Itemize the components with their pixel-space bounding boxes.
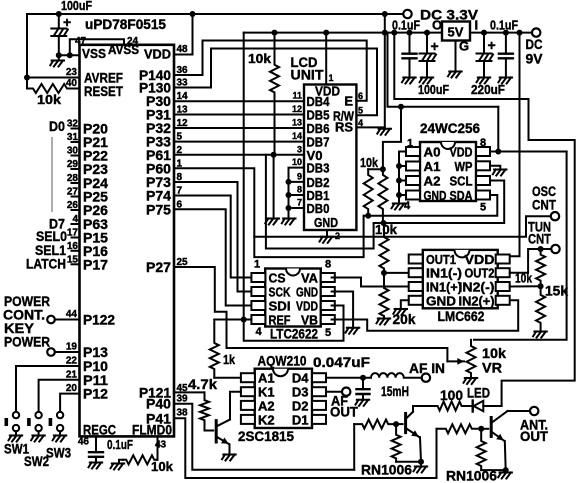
resistor 100 [437,402,463,411]
svg-text:D1: D1 [292,412,309,427]
ground V0 node [265,219,279,225]
svg-text:+: + [488,37,496,53]
wire SW2 to ground [38,431,40,435]
wire VB to IN2+ [332,300,519,330]
resistor 4.7k [200,399,209,421]
svg-text:P17: P17 [83,256,108,272]
wire P140 to LCD E [174,41,367,101]
svg-text:10k: 10k [375,222,398,237]
wire 100uF top lead [58,14,60,29]
ground 220uF [477,78,491,84]
svg-text:SCK: SCK [269,285,291,300]
pin box A2 (AQW) [241,401,255,410]
svg-text:13: 13 [292,118,302,128]
svg-text:220uF: 220uF [471,82,505,97]
wire 100uF bottom lead [58,36,60,55]
wire 3.3V to VR top [474,152,567,340]
wire LTC GND [332,292,354,328]
pin stub uPD pin 26 [72,209,80,211]
wire VA to IN1+ [332,278,409,287]
pin box VDD (LMC) [496,255,510,264]
wire uPD to SW1 [16,366,80,412]
svg-text:100: 100 [440,387,463,403]
wire 0.1uF b top lead [505,33,507,54]
capacitor 0.1uF (REGC) [89,452,103,457]
svg-text:RESET: RESET [84,83,123,99]
resistor 10k (RESET) [27,84,73,93]
svg-text:AVSS: AVSS [108,42,139,57]
junction rail2/9V drop [517,30,523,36]
wire uPD VDD [174,14,193,55]
wire 0.1uF a bottom lead [409,58,411,77]
wire REF to LTC VDD (under chip) [244,306,344,341]
wire REGC stub [95,436,97,452]
switch SW2 [35,412,41,418]
resistor 10k (SCL pullup) [378,169,387,223]
svg-text:A2: A2 [424,174,441,189]
resistor 10k (divider top) [380,223,389,273]
ground at VSS node [50,61,64,67]
wire P32-DB6 [174,127,304,129]
wire P13 [55,351,80,353]
wire P122 [55,319,80,321]
pin box GND (LMC) [409,296,423,305]
svg-text:IN1(-): IN1(-) [426,266,462,281]
display LCD UNIT body [304,85,356,231]
junction IN2- node [538,283,544,289]
svg-text:1: 1 [254,259,260,271]
svg-text:A2: A2 [258,398,275,413]
svg-text:30: 30 [67,146,79,157]
wire 24WC VDD drop [497,107,499,152]
svg-text:11: 11 [292,91,302,101]
svg-text:uPD78F0515: uPD78F0515 [85,17,166,32]
svg-text:WP: WP [455,159,473,174]
wire V0 node to LCD V0 [274,154,304,156]
wire DB0 tie [289,207,305,209]
wire D3 to AF OUT [326,391,342,393]
resistor 10k (TUN) [536,249,545,286]
ground RN2 [498,473,512,479]
junction rail2/0.1uF a [407,30,413,36]
svg-text:0.1uF: 0.1uF [107,437,133,452]
resistor 20k (divider bottom) [380,273,389,319]
wire REF pin [214,319,251,321]
svg-text:GND: GND [426,293,456,308]
terminal P13 (power key) [47,348,55,356]
photoMOS U5 AQW210 body [255,369,312,428]
svg-text:VDD: VDD [144,47,171,62]
wire AVSS bracket [70,39,124,55]
pin stub uPD pin 32 [72,128,80,130]
wire RN2 input riser [436,429,438,478]
pin box SDI (LTC) [251,301,265,310]
op-amp U4 LMC662 body [423,250,498,308]
svg-text:DC 3.3V: DC 3.3V [420,7,479,23]
svg-text:44: 44 [66,309,78,320]
svg-text:8: 8 [325,259,331,271]
pin box IN1(+) (LMC) [409,282,423,291]
wire RN1 internal to emitter [396,461,421,463]
ground 100uF b [420,78,434,84]
capacitor 0.1uF (3.3V side) [403,54,417,59]
ground VR [464,378,478,384]
svg-text:E: E [344,94,353,109]
wire VR top [470,340,472,342]
wire LCD GND stub [326,230,328,237]
svg-text:LED: LED [467,385,490,401]
svg-text:VA: VA [301,271,319,286]
svg-text:27: 27 [67,187,79,198]
wire GND tie (24WC) [399,194,406,196]
transistor Q1 2SC1815 [215,421,218,442]
wire P31-DB5 [174,114,304,116]
wire Q1 collector to K1 [230,392,241,420]
ground 0.047uF [356,400,370,406]
svg-text:4: 4 [358,118,363,128]
svg-text:6: 6 [177,199,183,210]
wire RS net vertical [384,33,386,128]
wire 3.3V rail2 [244,32,442,34]
svg-text:D2: D2 [292,398,309,413]
wire RESET to pin [73,88,80,90]
wire P75 to SDI [174,209,251,305]
potentiometer 10k VR body [467,342,476,377]
svg-text:9V: 9V [526,51,544,67]
svg-text:6: 6 [358,91,363,101]
junction rail2/100uF [424,30,430,36]
svg-text:REF: REF [269,313,291,328]
pin box VDD (24WC256) [476,147,490,156]
pin box CS (LTC) [251,273,265,282]
terminal DC 3.3V [403,10,411,18]
terminal ANT OUT [530,407,538,415]
junction rail2/LED feed [391,30,397,36]
svg-text:GND: GND [296,285,318,300]
pin stub uPD pin 17 [72,237,80,239]
svg-text:8: 8 [177,172,183,183]
wire 5V feed to LED chain [394,33,574,406]
pin stub uPD pin 27 [72,196,80,198]
svg-text:22: 22 [66,356,78,367]
junction VSS node [56,52,62,58]
svg-text:VR: VR [482,360,502,376]
junction SDA pullup [365,213,371,219]
wire 4.7k to base [205,421,214,430]
wire DC3.3V terminal drop [384,14,386,33]
svg-text:VSS: VSS [82,46,106,61]
pin stub uPD pin 4 [72,223,80,225]
wire pullup feed [383,107,401,170]
svg-text:IN2(+): IN2(+) [459,293,495,308]
svg-text:P41: P41 [146,410,171,426]
wire P74 to CS [174,196,251,278]
svg-text:P12: P12 [83,386,108,402]
inductor 15mH [371,373,404,378]
svg-text:4.7k: 4.7k [188,376,217,392]
pin stub uPD pin 30 [72,155,80,157]
ground 0.1uF a [402,78,416,84]
svg-text:12: 12 [292,104,302,114]
svg-text:UNIT: UNIT [291,67,324,83]
svg-text:P122: P122 [83,312,115,328]
svg-text:14: 14 [177,91,189,102]
wire WP [490,166,500,170]
svg-text:G: G [459,39,469,54]
wire cap 0.047 bottom lead [362,394,364,400]
svg-text:A0: A0 [424,145,441,160]
wire OSC CNT net [254,216,551,237]
junction rail2/terminal [382,30,388,36]
ground RN1 [414,467,428,473]
wire VSS to uPD pin 47 [59,54,80,56]
pin box A2 (24WC256) [406,176,420,185]
junction RN2 base node [478,426,484,432]
bus bracket D0-D7 [51,137,53,212]
wire SW3 to ground [59,431,61,435]
svg-text:3: 3 [297,144,302,154]
junction D4/cap [360,375,366,381]
pin box D4 (AQW) [312,373,326,382]
junction AVREF rail [24,75,30,81]
svg-text:10k: 10k [151,459,174,474]
wire RN1 emitter down [420,437,421,466]
svg-text:12: 12 [177,118,189,129]
pin box OUT1 (LMC) [409,255,423,264]
junction top rail / 100uF [56,11,62,17]
junction rail2/pullup V0 [272,30,278,36]
wire 0.1uF a top lead [409,33,411,54]
pin box WP (24WC256) [476,161,490,170]
pin box SCK (LTC) [251,287,265,296]
svg-text:1: 1 [329,73,334,83]
wire P30-DB4 [174,100,304,102]
svg-text:K2: K2 [258,412,275,427]
capacitor 0.047uF [357,389,370,394]
svg-text:7: 7 [177,186,183,197]
pin box SDA (24WC256) [476,191,490,200]
svg-text:24WC256: 24WC256 [420,120,480,136]
svg-text:1k: 1k [223,352,236,367]
svg-text:4: 4 [72,214,78,225]
svg-text:DB3: DB3 [307,161,330,176]
svg-text:32: 32 [67,119,79,130]
svg-text:0.1uF: 0.1uF [392,18,420,33]
wire 24WC VDD pin [490,151,567,153]
wire RN1 collector [413,406,437,412]
ground Q1 emitter [222,455,236,461]
wire cap 0.047 top lead [362,378,364,390]
junction VDD feed branch [398,104,404,110]
pin box A0 (24WC256) [406,147,420,156]
svg-text:46: 46 [78,437,90,448]
svg-text:VB: VB [301,313,318,328]
svg-text:36: 36 [177,65,189,76]
junction TUN CNT [538,246,544,252]
svg-text:10: 10 [292,157,302,167]
svg-text:+: + [431,38,439,54]
svg-text:5: 5 [325,327,331,339]
svg-text:SCL: SCL [450,174,473,189]
wire RN2 base [481,428,488,430]
junction DB1 tie [286,192,292,198]
svg-text:31: 31 [67,132,79,143]
ground DB0-3 chain [282,219,296,225]
svg-text:4: 4 [256,326,263,338]
resistor 15k [536,286,545,331]
svg-text:100uF: 100uF [418,82,449,97]
pin stub uPD pin 28 [72,182,80,184]
terminal OSC CNT [551,212,559,220]
svg-text:SDI: SDI [269,299,291,314]
wire pullup top link [368,168,383,170]
wire left rail down [26,14,28,78]
svg-text:D4: D4 [292,371,309,386]
resistor RN1 base [354,420,396,429]
svg-text:VDD: VDD [450,145,473,160]
resistor RN2 internal [477,429,486,470]
eeprom U2 24WC256 body [420,142,476,201]
svg-text:9: 9 [297,171,302,181]
wire P41 [174,418,437,478]
svg-text:14: 14 [292,131,302,141]
svg-text:CS: CS [269,271,286,286]
pin box SCL (24WC256) [476,176,490,185]
svg-text:P27: P27 [146,259,171,275]
microcontroller U1 uPD78F0515 body [80,45,175,437]
svg-text:39: 39 [177,394,189,405]
svg-text:100uF: 100uF [61,0,92,13]
pin box D2 (AQW) [312,401,326,410]
junction rail2/LCD VDD [323,30,329,36]
wire RN2 internal to emitter [481,469,506,471]
wire FLMD0 res to ground [119,460,123,464]
pin stub uPD pin 31 [72,141,80,143]
svg-text:D0: D0 [49,118,65,134]
svg-text:1: 1 [407,138,413,150]
regulator 5V body [442,22,470,41]
svg-text:SW3: SW3 [46,445,71,461]
wire 220uF bottom lead [483,61,485,78]
terminal DC 9V [532,28,540,36]
ground LCD GND [320,237,334,243]
svg-text:RN1006: RN1006 [446,468,497,483]
resistor 10k (V0 pullup) [270,33,279,155]
svg-text:10k: 10k [515,271,533,286]
svg-text:10k: 10k [37,92,62,107]
junction RN1 emitter [418,459,424,465]
pin box D1 (AQW) [312,415,326,424]
wire A1 tie [399,165,406,167]
wire 100uF b top lead [426,33,428,54]
svg-text:GND: GND [314,215,338,230]
svg-text:10k: 10k [360,155,379,170]
svg-text:17: 17 [67,228,79,239]
pin box VA (LTC) [321,273,335,282]
terminal P122 (power cont) [47,316,55,324]
wire IN2- to node [510,285,541,287]
ground WP [493,170,507,176]
junction divider mid [381,270,387,276]
wire P121 [174,391,205,393]
svg-text:A1: A1 [258,371,275,386]
wire rail2 right of regulator [470,32,532,34]
wire 3.3V line to REF [243,33,245,320]
wire P33-DB7 [174,141,304,143]
wire OUT2 to TUN CNT [510,249,552,273]
svg-text:4: 4 [404,200,411,212]
wire DB3 tie [289,168,305,219]
transistor Q2 RN1006 [404,414,407,433]
svg-text:LMC662: LMC662 [438,308,485,324]
wire RN2 emitter down [504,441,507,473]
wire RN2 collector to ANT OUT [508,410,531,412]
potentiometer wiper arrow [447,360,464,362]
wire LCD RS [356,126,384,128]
wire DB1 tie [289,194,305,196]
ground LTC GND [346,328,360,334]
junction RN2 emitter [503,467,509,473]
svg-text:25: 25 [177,257,189,268]
wire uPD to SW2 [39,380,80,412]
pin box VB (LTC) [321,315,335,324]
junction SCL pullup divider [381,220,387,226]
svg-text:38: 38 [177,407,189,418]
svg-text:29: 29 [67,159,79,170]
svg-text:7: 7 [297,198,302,208]
svg-text:0.1uF: 0.1uF [490,18,518,33]
svg-text:LATCH: LATCH [26,256,66,272]
dac U3 LTC2622 body [265,269,321,327]
svg-text:OUT: OUT [520,428,548,444]
wire SW1 to ground [15,431,17,435]
ground 24WC A-chain [392,204,406,210]
svg-text:23: 23 [66,67,78,78]
svg-text:8: 8 [480,137,486,149]
svg-text:26: 26 [67,200,79,211]
svg-text:15mH: 15mH [381,383,409,399]
wire V0 node to ground [273,155,275,219]
wire LED out [463,405,473,407]
ground regulator G [448,72,462,78]
svg-text:A1: A1 [424,159,441,174]
svg-text:P40: P40 [146,396,171,412]
wire P61 [174,154,274,156]
junction A2 tie [396,178,402,184]
svg-text:LTC2622: LTC2622 [270,327,318,342]
svg-text:VDD: VDD [296,299,318,314]
wire 9V to LMC662 VDD [510,33,520,257]
svg-text:5: 5 [177,132,183,143]
pin box K2 (AQW) [241,415,255,424]
pin box IN2(-) (LMC) [496,282,510,291]
ground 15k [533,332,547,338]
svg-text:CNT: CNT [528,231,551,247]
pin stub uPD pin 15 [72,263,80,265]
wire divider mid to IN1- [384,272,409,274]
resistor RN1 internal [392,424,401,462]
svg-text:15: 15 [67,254,79,265]
resistor 1k [210,320,219,378]
svg-text:O: O [432,18,442,33]
wire 220uF top lead [483,33,485,54]
svg-text:10k: 10k [248,51,272,66]
pin box D3 (AQW) [312,387,326,396]
ground FLMD0 [111,464,125,470]
junction rail2/220uF [481,30,487,36]
wire 0.1uF b bottom lead [505,58,507,77]
ground SW2 [31,436,45,442]
